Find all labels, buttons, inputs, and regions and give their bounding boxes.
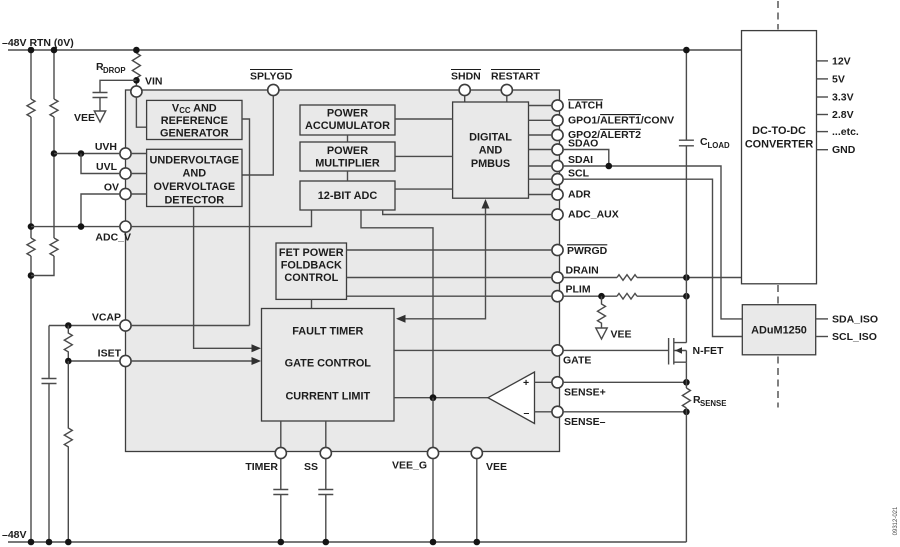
- pin VIN: [131, 86, 142, 97]
- svg-text:ADR: ADR: [568, 189, 591, 201]
- svg-text:SDAI: SDAI: [568, 154, 593, 166]
- svg-text:RESTART: RESTART: [491, 71, 540, 83]
- main IC block (shaded): [126, 90, 560, 452]
- svg-text:LOAD: LOAD: [708, 141, 730, 150]
- svg-text:–: –: [524, 407, 530, 419]
- wire: digital/fault-timer handshake (two arrows): [404, 208, 486, 319]
- svg-text:VEE: VEE: [486, 461, 507, 473]
- svg-text:FAULT TIMER: FAULT TIMER: [292, 326, 363, 338]
- svg-text:SENSE: SENSE: [700, 399, 726, 408]
- svg-text:CONVERTER: CONVERTER: [745, 139, 814, 151]
- wire: SS to cap to rail: [325, 459, 327, 542]
- block: VCC and reference generator: [147, 100, 242, 139]
- capacitor on VCAP leg: [42, 379, 57, 384]
- wire: VIN internal to VCC generator: [136, 97, 146, 127]
- node: PLIM pulldown junction: [598, 293, 605, 300]
- svg-text:...etc.: ...etc.: [832, 126, 859, 138]
- svg-text:SPLYGD: SPLYGD: [250, 71, 293, 83]
- svg-text:N-FET: N-FET: [693, 345, 724, 357]
- arrowhead into fault timer right edge: [396, 315, 406, 323]
- pin GND: [817, 149, 829, 151]
- ground VEE (top): [94, 111, 105, 122]
- svg-text:3.3V: 3.3V: [832, 91, 854, 103]
- pin 5V: [817, 78, 829, 80]
- svg-text:OVERVOLTAGE: OVERVOLTAGE: [153, 181, 235, 193]
- node: SDAO/SDAI junction: [606, 163, 613, 170]
- svg-text:–48V RTN (0V): –48V RTN (0V): [2, 37, 74, 49]
- node: rail B top junction: [51, 47, 58, 54]
- pin GPO1/ALERT1/CONV: [552, 115, 563, 126]
- node: VCAP leg bottom: [46, 539, 53, 546]
- svg-text:DETECTOR: DETECTOR: [164, 194, 224, 206]
- svg-text:ADC_V: ADC_V: [95, 232, 131, 244]
- svg-text:VCC AND: VCC AND: [172, 103, 217, 116]
- wire: ADC to digital: [395, 188, 453, 190]
- wire ADC_V (to 12-bit ADC): [31, 210, 312, 226]
- pin UVL: [120, 168, 131, 179]
- pin ...etc.: [817, 131, 829, 133]
- svg-text:+: +: [523, 377, 529, 389]
- pin SENSE+: [552, 377, 563, 388]
- pin ADC_AUX: [552, 209, 563, 220]
- resistor: rail A lower: [27, 238, 35, 256]
- pin SS: [320, 447, 331, 458]
- wire: multiplier-ADC stub: [347, 171, 349, 181]
- svg-text:POWER: POWER: [327, 145, 368, 157]
- wire: comparator - input stub: [535, 411, 552, 413]
- node: rail A top junction: [28, 47, 35, 54]
- svg-text:VCAP: VCAP: [92, 312, 121, 324]
- node: rail A bottom junction: [28, 539, 35, 546]
- node: rail A / rail B join: [28, 272, 35, 279]
- wire: foldback to DRAIN: [347, 277, 552, 279]
- block: FET power foldback control: [276, 243, 347, 299]
- wire: TIMER to cap to rail: [280, 459, 282, 542]
- svg-text:LATCH: LATCH: [568, 100, 603, 112]
- svg-text:REFERENCE: REFERENCE: [161, 115, 228, 127]
- pin SDA_ISO: [816, 318, 828, 320]
- svg-text:12V: 12V: [832, 55, 851, 67]
- wire: foldback to PWRGD: [347, 249, 552, 251]
- node: rail B / UVH junction: [51, 150, 58, 157]
- resistor: rail A upper: [27, 99, 35, 117]
- svg-text:SS: SS: [304, 461, 318, 473]
- block: 12-bit ADC: [300, 181, 395, 210]
- node: load rail top junction: [683, 47, 690, 54]
- node: RDROP top junction: [133, 47, 140, 54]
- svg-text:POWER: POWER: [327, 108, 368, 120]
- node: OV riser junction on ADC_V wire: [78, 223, 85, 230]
- wire: SDAI to ADuM1250 SDA: [563, 166, 742, 319]
- capacitor: VIN bypass: [93, 93, 108, 112]
- wire: SDAO jog down to SDAI net: [563, 150, 609, 167]
- arrowhead into fault timer (upper): [252, 344, 262, 352]
- resistor RSENSE: [682, 388, 690, 408]
- svg-text:SENSE+: SENSE+: [564, 387, 606, 399]
- wire: VEE_G to rail: [432, 459, 434, 542]
- transistor N-FET: [669, 338, 687, 365]
- wire: SENSE- to sense resistor bottom: [563, 411, 686, 413]
- wire: PLIM external with series resistor: [563, 295, 686, 297]
- resistor: ISET chain lower: [64, 361, 72, 542]
- pin GATE: [552, 345, 563, 356]
- pin PLIM: [552, 291, 563, 302]
- svg-text:ADuM1250: ADuM1250: [751, 324, 807, 336]
- pin SENSE-: [552, 406, 563, 417]
- svg-text:TIMER: TIMER: [245, 461, 278, 473]
- pin SCL_ISO: [816, 336, 828, 338]
- block: undervoltage and overvoltage detector: [147, 149, 242, 206]
- svg-text:ISET: ISET: [98, 348, 122, 360]
- node: SENSE+ junction: [683, 379, 690, 386]
- node: SENSE- junction: [683, 409, 690, 416]
- svg-text:AND: AND: [182, 168, 206, 180]
- svg-text:–48V: –48V: [2, 529, 27, 541]
- wire: SCL to ADuM1250 SCL: [563, 179, 742, 336]
- isolation boundary (dashed): [777, 1, 779, 30]
- wire: multiplier to digital: [395, 155, 453, 157]
- pin PWRGD: [552, 244, 563, 255]
- wire: left divider rail B (x=54): [31, 50, 54, 276]
- node: comparator output junction: [430, 394, 437, 401]
- resistor: PLIM pulldown to VEE: [598, 296, 606, 328]
- wire: DRAIN external with series resistor: [563, 277, 741, 279]
- wire: junction down to VEE_G pin: [432, 398, 434, 448]
- svg-text:UVH: UVH: [95, 141, 117, 153]
- wire: UV/OV detector to fault timer (arrow): [194, 207, 253, 349]
- svg-text:SDA_ISO: SDA_ISO: [832, 313, 878, 325]
- pin SDAO: [552, 144, 563, 155]
- wire VCAP: [49, 325, 250, 327]
- svg-text:CONTROL: CONTROL: [284, 272, 338, 284]
- pin LATCH: [552, 100, 563, 111]
- wire: fault timer to SS pin: [325, 421, 327, 447]
- svg-text:MULTIPLIER: MULTIPLIER: [315, 158, 380, 170]
- comparator (current sense amp): [488, 372, 535, 424]
- ground VEE (PLIM pulldown): [596, 328, 607, 339]
- resistor on DRAIN line: [617, 275, 637, 281]
- pin VEE: [471, 447, 482, 458]
- pin RESTART: [501, 84, 512, 95]
- wire: VCC gen to VCAP riser: [242, 119, 250, 326]
- pin 12V: [817, 60, 829, 62]
- svg-text:SHDN: SHDN: [451, 71, 481, 83]
- wire: RESTART stub into digital block: [506, 96, 508, 102]
- resistor RDROP: [135, 50, 137, 86]
- wire: comparator + input stub: [535, 381, 552, 383]
- svg-text:ACCUMULATOR: ACCUMULATOR: [305, 120, 390, 132]
- svg-text:GND: GND: [832, 144, 856, 156]
- svg-text:DROP: DROP: [103, 66, 126, 75]
- capacitor CLOAD: [679, 140, 694, 146]
- node: ISET chain junction: [65, 358, 72, 365]
- resistor on PLIM line: [617, 293, 637, 299]
- pin VCAP: [120, 320, 131, 331]
- wire: -48V RTN top rail: [8, 49, 742, 51]
- svg-text:SENSE–: SENSE–: [564, 416, 606, 428]
- wire: fault timer to TIMER pin: [280, 421, 282, 447]
- pin SHDN: [459, 84, 470, 95]
- capacitor on SS: [318, 490, 333, 495]
- capacitor on TIMER: [273, 490, 288, 495]
- svg-text:VEE_G: VEE_G: [392, 460, 427, 472]
- node: ISET chain bottom: [65, 539, 72, 546]
- svg-text:PLIM: PLIM: [566, 283, 591, 295]
- node: PLIM / load-rail junction: [683, 293, 690, 300]
- svg-text:ADC_AUX: ADC_AUX: [568, 209, 619, 221]
- node: TIMER bottom: [278, 539, 285, 546]
- node: VCAP / ISET-chain junction: [65, 322, 72, 329]
- wire: GATE to N-FET gate: [563, 349, 669, 351]
- svg-text:UVL: UVL: [96, 161, 118, 173]
- resistor: rail B lower: [50, 238, 58, 256]
- svg-text:OV: OV: [104, 182, 119, 194]
- wire: load rail (top to N-FET drain): [685, 50, 687, 343]
- svg-text:12-BIT ADC: 12-BIT ADC: [318, 190, 378, 202]
- svg-text:AND: AND: [479, 145, 503, 157]
- block: power accumulator: [300, 105, 395, 135]
- wire: VIN to bypass capacitor: [100, 80, 136, 92]
- svg-text:UNDERVOLTAGE: UNDERVOLTAGE: [150, 154, 240, 166]
- wire: ADC to comparator-node riser: [361, 210, 433, 398]
- wire OV: [81, 194, 147, 227]
- svg-text:GATE: GATE: [563, 355, 591, 367]
- block: fault timer / gate control / current limit: [262, 309, 395, 422]
- wire: comparator output to current limit: [394, 397, 488, 399]
- svg-text:DRAIN: DRAIN: [566, 265, 599, 277]
- svg-text:DIGITAL: DIGITAL: [469, 132, 512, 144]
- wire: -48V bottom rail: [8, 541, 686, 543]
- pin ISET: [120, 355, 131, 366]
- arrowhead into fault timer (lower, from ISET): [252, 357, 262, 365]
- wire: foldback to fault-timer stub: [311, 299, 313, 308]
- wire UVL: [81, 154, 147, 174]
- wire: VEE to rail: [476, 459, 478, 542]
- pin OV: [120, 188, 131, 199]
- svg-text:PMBUS: PMBUS: [471, 158, 510, 170]
- svg-text:09312-021: 09312-021: [893, 506, 899, 535]
- node: VEE_G bottom: [430, 539, 437, 546]
- pin SPLYGD: [268, 84, 279, 95]
- pin ADR: [552, 189, 563, 200]
- pin VEE_G: [427, 447, 438, 458]
- svg-text:5V: 5V: [832, 73, 845, 85]
- pin 2.8V: [817, 114, 829, 116]
- pin TIMER: [275, 447, 286, 458]
- wire: accumulator-multiplier stub: [347, 135, 349, 142]
- block: power multiplier: [300, 142, 395, 171]
- wire: SPLYGD internal to UV/OV detector: [242, 96, 273, 175]
- svg-text:SCL: SCL: [568, 167, 590, 179]
- svg-text:GPO1/ALERT1/CONV: GPO1/ALERT1/CONV: [568, 115, 674, 127]
- wire: foldback to PLIM: [347, 295, 552, 297]
- pin SCL: [552, 174, 563, 185]
- resistor: VCAP to ISET chain upper: [64, 326, 72, 362]
- svg-text:DC-TO-DC: DC-TO-DC: [752, 125, 806, 137]
- block: ADuM1250 isolator: [742, 305, 815, 355]
- svg-text:FOLDBACK: FOLDBACK: [281, 260, 342, 272]
- wire: SHDN stub into digital block: [464, 96, 466, 102]
- svg-text:SCL_ISO: SCL_ISO: [832, 331, 877, 343]
- pin ADC_V: [120, 221, 131, 232]
- wire: ADC_AUX to ADC: [383, 210, 552, 214]
- node: SS bottom: [323, 539, 330, 546]
- wire: accumulator to digital: [395, 118, 453, 120]
- svg-text:SDAO: SDAO: [568, 138, 598, 150]
- wire: N-FET source down to bottom rail: [685, 362, 687, 542]
- pin SDAI: [552, 160, 563, 171]
- wire: gate control to GATE pin: [394, 349, 552, 351]
- svg-text:FET POWER: FET POWER: [279, 247, 344, 259]
- wire: VCAP capacitor leg: [48, 326, 50, 543]
- pin UVH: [120, 148, 131, 159]
- block: digital and PMBus: [453, 102, 529, 198]
- wire: SENSE+ to sense resistor top: [563, 381, 686, 383]
- pin DRAIN: [552, 272, 563, 283]
- pin GPO2/ALERT2: [552, 129, 563, 140]
- svg-text:2.8V: 2.8V: [832, 109, 854, 121]
- node: rail A / ADC_V junction: [28, 223, 35, 230]
- pin 3.3V: [817, 96, 829, 98]
- wire UVH: [54, 153, 147, 155]
- wire ISET: [68, 360, 252, 362]
- wire: left divider rail A (x=31): [30, 50, 32, 542]
- svg-text:VEE: VEE: [611, 329, 632, 341]
- node: VIN junction: [133, 77, 140, 84]
- block: DC-to-DC converter: [742, 31, 817, 284]
- node: UVL riser junction on UVH wire: [78, 150, 85, 157]
- arrowhead up into digital block: [482, 199, 490, 209]
- node: DRAIN / load-rail junction: [683, 274, 690, 281]
- svg-text:VIN: VIN: [145, 76, 163, 88]
- svg-text:CURRENT LIMIT: CURRENT LIMIT: [285, 391, 370, 403]
- svg-text:GENERATOR: GENERATOR: [160, 128, 229, 140]
- node: VEE bottom: [474, 539, 481, 546]
- svg-text:VEE: VEE: [74, 112, 95, 124]
- resistor: rail B upper: [50, 99, 58, 117]
- svg-text:PWRGD: PWRGD: [567, 245, 608, 257]
- svg-text:GATE CONTROL: GATE CONTROL: [285, 358, 372, 370]
